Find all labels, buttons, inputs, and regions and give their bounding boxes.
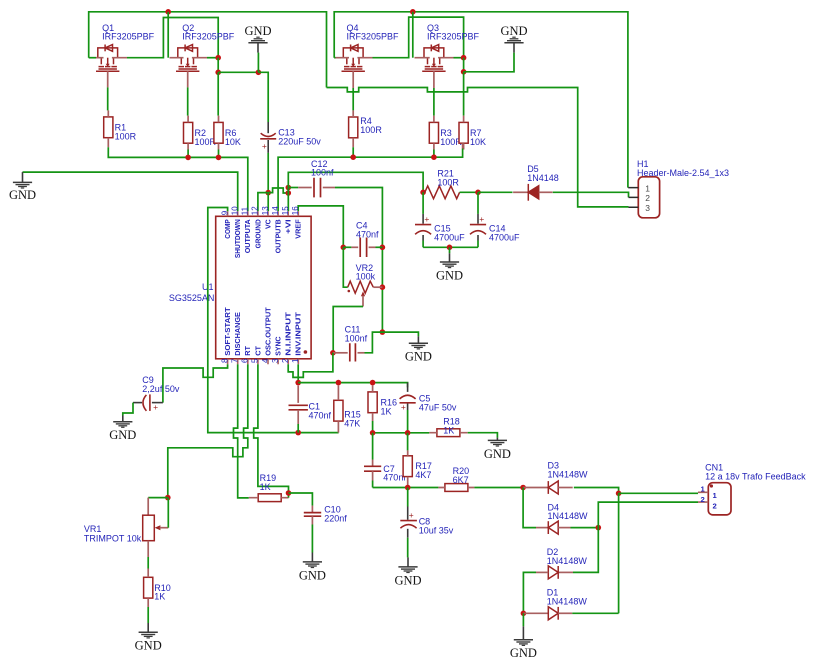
junction C4 right [380,245,386,251]
junction +VI upper to C12 [286,185,292,191]
svg-text:100R: 100R [115,132,137,142]
svg-text:GND: GND [436,268,463,282]
svg-text:470nf: 470nf [309,410,332,420]
junction source node GND link right [461,69,467,75]
junction Q2 drain on left rail [165,9,171,15]
svg-text:SOFT-START: SOFT-START [223,307,232,356]
Q1 drain/source pin stubs [96,57,127,59]
svg-text:4700uF: 4700uF [434,232,465,242]
svg-text:100nf: 100nf [311,168,334,178]
svg-text:+: + [479,214,484,224]
svg-text:INV.INPUT: INV.INPUT [294,312,303,356]
junction R15 top [336,380,342,386]
svg-text:IRF3205PBF: IRF3205PBF [182,32,235,42]
junction CT/R19/C10 node [286,490,292,496]
Q3 gate pin lead [433,71,435,88]
R7 bottom pin to rail [462,143,464,148]
op-amp U1 SG3525AN body [216,216,311,358]
svg-text:+VI: +VI [284,219,293,234]
wire N.I.INPUT pin 2 to C11 left with hop [288,353,333,378]
connector H1 Header-Male-2.54_1x3 [638,177,659,218]
resistor R15 [334,400,343,421]
Q2 drain/source pin stubs [170,57,208,59]
svg-text:47K: 47K [344,419,360,429]
wire R16 bottom down to C7 [372,433,374,460]
Q4 gate pin lead [352,71,354,88]
svg-text:TRIMPOT 10k: TRIMPOT 10k [84,534,142,544]
wire D1 right to pin1 vertical [572,612,618,614]
junction C5 bottom / R17 top [405,430,411,436]
junction C4 left [341,245,347,251]
R16 pin leads [372,386,374,422]
junction R17 bottom / C8 top [405,485,411,491]
wire source node down [217,58,219,73]
ground GND under C15/C14 [449,253,451,262]
transistor Q1 [96,45,119,72]
Q4 drain/source pin stubs [336,57,373,59]
resistor R3 [429,122,438,143]
wire VC node hop over pin 14 to pin 15 node [268,188,288,193]
junction R16 top [370,380,376,386]
junction CN1 pin1 node [616,491,622,497]
wire INV.INPUT pin 1 down to bus [297,364,299,382]
svg-text:470nf: 470nf [356,229,379,239]
svg-text:IRF3205PBF: IRF3205PBF [347,32,400,42]
svg-text:12 a 18v Trafo FeedBack: 12 a 18v Trafo FeedBack [705,471,806,481]
wire CN1 pin 2 down to D2 [573,502,698,572]
svg-text:100nf: 100nf [345,333,368,343]
svg-text:12: 12 [251,206,260,215]
resistor R18 [437,429,460,437]
svg-text:10K: 10K [225,137,241,147]
svg-text:CT: CT [253,346,262,356]
svg-text:5: 5 [251,358,260,363]
wire R4 R3 bottoms to rail [353,147,434,157]
svg-text:IRF3205PBF: IRF3205PBF [102,32,155,42]
svg-text:VC: VC [263,219,272,229]
wire top rail right (Q3/Q4 drain supply) down to H1 pin 1 [334,12,628,188]
junction Q1/Q2 source node [215,55,221,61]
svg-text:1K: 1K [443,425,454,435]
R15 pin leads [337,386,339,433]
ground GND under C11 wire [417,336,419,343]
wire Q3/Q4 source node down [463,58,465,72]
junction Q3/Q4 source node [461,55,467,61]
svg-text:+: + [424,214,429,224]
svg-text:47uF 50v: 47uF 50v [419,403,457,413]
junction GND branch [256,70,262,76]
capacitor C14 4700uF [477,192,479,214]
ground GND under C8 [407,557,409,567]
wire D5 to H1 pin 2 [553,192,629,197]
wire VR1 to R10 [147,557,149,569]
ground GND under C10 [311,553,313,562]
svg-text:RT: RT [243,346,252,356]
diode D4 1N4148W [536,527,548,529]
capacitor C5 47uF 50v [407,383,409,392]
svg-text:220uF 50v: 220uF 50v [278,137,321,147]
wire C12 right down the C4/VR2 column [335,188,382,333]
junction R4 bottom [350,154,356,160]
capacitor C8 10uf 35v [407,488,409,507]
wire C4 left node down to VR2 left [343,247,347,287]
junction R21 right / C14 top / D5 [475,190,481,196]
svg-text:1K: 1K [154,592,165,602]
diode D3 1N4148W [523,487,548,489]
capacitor C7 470nf [372,460,374,467]
junction pin1/C1 top [295,380,301,386]
wire DISCHANGE pin 7 down to R19 left [234,364,249,498]
svg-text:2: 2 [701,495,705,504]
wire COMP pin 9 to C1/R15 bottom rail [208,208,339,433]
junction R16 bottom [370,430,376,436]
capacitor C12 100nf [298,187,312,189]
wire R20 to diode node [474,487,523,489]
wire Q4 source over to Q3 source node [373,17,464,58]
resistor R4 [349,117,358,138]
wire node to C10 [289,493,313,506]
svg-text:DISCHANGE: DISCHANGE [233,312,242,356]
svg-text:220nf: 220nf [324,514,347,524]
wire C9 left to GND [123,403,133,416]
svg-text:N.I.INPUT: N.I.INPUT [284,312,293,356]
svg-text:2: 2 [281,358,290,363]
svg-text:VREF: VREF [294,219,303,239]
svg-text:1: 1 [291,358,300,363]
capacitor C11 100nf [333,352,348,354]
svg-text:1N4148W: 1N4148W [548,511,589,521]
svg-text:COMP: COMP [223,219,232,238]
wire CN1 pin1 node down to D1 [618,493,620,613]
R18 pin leads [429,432,467,434]
svg-text:OSC.OUTPUT: OSC.OUTPUT [263,307,272,356]
wire bottom feedback rail [373,487,439,489]
R20 pin leads [438,487,474,489]
U1 top pin stubs (pins 9-16) [228,211,299,216]
ground GND far left [22,172,24,182]
connector CN1 12 a 18v Trafo FeedBack [708,483,731,515]
wire VC node jog to pin 12 [258,193,268,212]
R7 pin leads [463,116,465,150]
wire D3 to CN1 pin1 node [574,488,619,494]
svg-text:+: + [153,402,158,412]
svg-text:GND: GND [405,350,432,364]
svg-text:100k: 100k [356,272,376,282]
R3 pin leads [433,116,435,150]
R4 pin leads [352,110,354,147]
svg-text:GND: GND [500,24,527,38]
Q3 drain/source pin stubs [415,57,454,59]
diode D5 1N4148 [513,191,528,193]
wire SOFT-START pin 8 to C9 with hop [163,364,228,402]
ground GND top right [513,43,515,53]
svg-text:2: 2 [645,193,650,203]
capacitor C13 220uF 50v [267,122,269,133]
junction VR1 top [165,495,171,501]
svg-text:GROUND: GROUND [253,219,262,248]
wire RT pin 6 to VR1 with hops [168,364,248,497]
svg-text:10uf 35v: 10uf 35v [419,525,454,535]
svg-text:2: 2 [713,501,717,510]
junction C1 bottom on rail [295,430,301,436]
wire +VI pin 15 up and right to R21 [288,172,423,211]
wire VR1 wiper loop to top [167,498,169,528]
svg-text:3: 3 [645,203,650,213]
svg-text:1: 1 [701,485,706,494]
junction R21 left / C15 top [420,190,426,196]
wire GND branch to C13 top [258,72,268,122]
resistor R19 [258,494,281,502]
potentiometer VR2 100k [348,281,374,293]
wire R16 bottom [372,421,374,433]
Q1 gate pin lead [107,71,109,87]
transistor Q3 [422,45,445,72]
wire D4 to pin2 vertical [571,527,599,529]
junction VR2 right [380,284,386,290]
wire +VI node to C12 [288,187,298,189]
wire Q3 gate to R3 [433,88,435,116]
R19 pin leads [249,497,289,499]
junction D1/D2 ground node [521,611,527,617]
svg-text:15: 15 [281,206,290,215]
capacitor C10 220nf [311,506,313,513]
junction bottom rail GND tap [447,245,453,251]
wire Q1 gate to R1 [107,87,109,110]
svg-text:1K: 1K [381,406,392,416]
resistor R21 100R (zigzag) [423,186,460,199]
wire top rail left (Q1/Q2 drain supply) down to gate-drive bus [89,12,327,88]
wire Q2 drain from rail [167,12,169,58]
U1 bottom pin stubs (pins 8-1) [228,359,299,365]
junction C11 left [330,350,336,356]
junction R6 bottom [216,155,222,161]
junction column meets C11 path [380,329,386,335]
wire diode node to GND [522,613,524,626]
svg-text:2,2uf 50v: 2,2uf 50v [142,384,180,394]
svg-text:Header-Male-2.54_1x3: Header-Male-2.54_1x3 [637,168,729,178]
wire Q3 source to node [454,57,464,59]
trimpot VR1 TRIMPOT 10k [147,498,149,516]
svg-text:OUTPUTB: OUTPUTB [274,219,283,253]
svg-text:7: 7 [231,358,240,363]
wire inverting input bus to C5 [298,383,407,388]
wire to GND under C15 [449,247,451,253]
svg-text:1N4148W: 1N4148W [547,556,588,566]
wire CT pin 5 to R19 right node [254,364,289,493]
svg-text:+: + [409,510,414,520]
resistor R10 [144,577,153,598]
wire R21 right to C14 node [460,191,478,193]
ground GND under R18 [496,438,498,441]
VR1 bottom pin lead [147,541,149,557]
resistor R17 [403,456,412,477]
svg-text:4K7: 4K7 [415,470,431,480]
wire source node down to R7 [463,72,465,116]
resistor R20 [445,484,468,492]
svg-text:1: 1 [713,491,718,500]
wire VREF pin 16 right and down to C4 [298,206,343,247]
svg-text:16: 16 [291,206,300,215]
wire node to D5 [478,191,513,193]
junction Q3 drain on right rail [410,9,416,15]
svg-text:100R: 100R [360,125,382,135]
svg-text:GND: GND [484,447,511,461]
svg-text:GND: GND [9,188,36,202]
svg-text:11: 11 [241,206,250,215]
svg-text:10K: 10K [470,137,486,147]
capacitor C1 470nf [297,386,299,403]
svg-text:SYNC: SYNC [274,336,283,356]
VR2 wiper arrow [361,291,365,296]
resistor R2 [184,122,193,143]
svg-text:VR1: VR1 [84,524,102,534]
ground GND under R10 [147,623,149,632]
svg-text:+: + [262,141,267,151]
transistor Q2 [176,45,199,72]
wire R2 R6 bottoms to rail [188,150,218,158]
wire C5 bottom to R17 [407,433,409,451]
svg-text:SHUTDOWN: SHUTDOWN [233,219,242,258]
svg-text:1: 1 [645,183,650,193]
junction D4 on CN1 pin2 wire [596,525,602,531]
svg-text:8: 8 [220,358,229,363]
wire bus from left rail to H1 pin 3 with crossover notches [327,88,629,207]
wire OUTPUTA rail from R1/R2/R6 to pin 11 [108,147,248,211]
wire VC node to pin 13 [267,193,269,212]
wire C13 bottom to VC node [267,153,269,193]
wire source node to top right GND [464,53,514,72]
capacitor C4 470nf [343,246,351,248]
wire Q1 drain link [89,57,96,59]
diode D1 1N4148W [523,612,548,614]
svg-text:IRF3205PBF: IRF3205PBF [427,32,480,42]
svg-text:GND: GND [510,646,537,660]
wire C11 right up and over to GND [365,332,419,353]
wire Q4 gate to R4 [352,88,354,110]
svg-text:3: 3 [271,358,280,363]
wire C15/C14 bottom rail [423,246,478,248]
wire R10 to GND [147,607,149,623]
svg-text:1N4148W: 1N4148W [548,469,589,479]
R10 pin leads [147,569,149,608]
junction R3 bottom [431,154,437,160]
svg-text:1K: 1K [260,482,271,492]
svg-text:OUTPUTA: OUTPUTA [243,219,252,253]
wire Q2 gate to R2 [187,87,189,115]
junction R2 bottom [185,155,191,161]
svg-text:100R: 100R [437,178,459,188]
R17 pin leads [407,450,409,485]
junction D3/D4 anode node [520,485,526,491]
wire source node down to R6 [217,72,219,115]
ground GND top center [257,43,259,53]
svg-text:6K7: 6K7 [453,475,469,485]
wire up to GND symbol [257,53,259,73]
wire anode node down to D4 [523,488,536,528]
svg-text:10: 10 [231,206,240,215]
junction VC node [265,190,271,196]
svg-text:GND: GND [244,24,271,38]
wire node to CN1 pin 1 [619,492,698,494]
svg-text:GND: GND [109,428,136,442]
wire Q3 drain from rail [412,12,414,58]
ground GND under diodes [522,626,524,640]
svg-text:6: 6 [241,358,250,363]
transistor Q4 [342,45,365,72]
wire Q4 drain link [334,57,335,59]
resistor R16 [368,392,377,413]
R6 pin leads [218,116,220,150]
svg-text:GND: GND [394,573,421,587]
svg-text:+: + [401,402,406,412]
resistor R6 [214,122,223,143]
wire Q2 source to node [207,57,218,59]
wire lower rail R16/C5/R18 [373,432,430,434]
svg-text:GND: GND [135,639,162,653]
wire VR1 top terminal [148,497,168,499]
wire source node to GND branch [218,71,258,73]
svg-text:13: 13 [261,206,270,215]
junction +VI lower [286,190,292,196]
svg-text:1N4148W: 1N4148W [547,597,588,607]
R2 pin leads [187,116,189,150]
ground GND under C9 [122,416,124,422]
R1 pin leads [107,110,109,147]
wire OUTPUTB rail from pin 14 to R4/R3/R7 [278,149,463,212]
wire Q1 source over to Q2 source node [127,18,218,58]
wire SHUTDOWN pin 10 to left GND [23,172,238,211]
svg-text:14: 14 [271,206,280,215]
junction source node to GND link [215,70,221,76]
resistor R1 [104,117,113,138]
wire VR2 wiper to C11 left node [333,307,363,353]
svg-text:GND: GND [299,568,326,582]
svg-text:4700uF: 4700uF [489,232,520,242]
wire R18 right to GND [468,433,498,438]
capacitor C15 4700uF [422,192,424,214]
capacitor C9 2,2uf 50v [152,402,163,404]
svg-text:1N4148: 1N4148 [527,173,559,183]
wire D2 left down to D1 node [523,572,536,613]
Q2 gate pin lead [187,71,189,87]
diode D2 1N4148W [558,571,573,573]
resistor R7 [459,122,468,143]
svg-text:4: 4 [261,358,270,363]
